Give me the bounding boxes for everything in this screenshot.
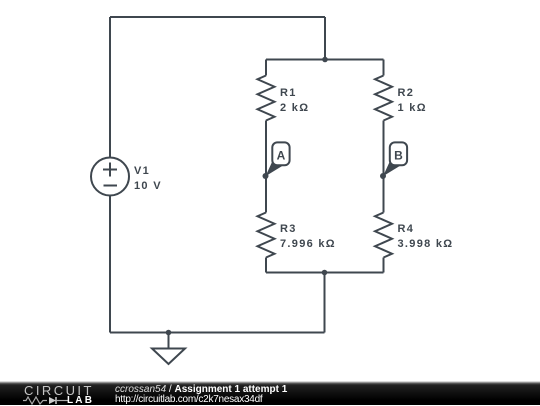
svg-text:10 V: 10 V (134, 180, 162, 192)
wire left rail upper (top rail to V1 plus terminal) (109, 17, 111, 158)
wire R4 bottom stub (383, 258, 385, 273)
svg-text:R2: R2 (398, 87, 415, 99)
junction node ground tap (166, 330, 172, 336)
svg-text:A: A (277, 149, 286, 163)
CircuitLab logo (24, 383, 94, 398)
resistor R3 (258, 213, 275, 258)
wire top node drop (top rail to junction) (324, 17, 326, 60)
resistor R2 (375, 76, 392, 121)
wire bottom rail (110, 332, 325, 334)
svg-text:R3: R3 (280, 223, 297, 235)
node B flag (380, 142, 407, 179)
svg-text:R1: R1 (280, 87, 297, 99)
junction node top (322, 57, 328, 63)
svg-text:R4: R4 (398, 223, 415, 235)
svg-text:3.998 kΩ: 3.998 kΩ (398, 238, 454, 250)
ground stub wire (168, 333, 170, 349)
node A flag (263, 142, 290, 179)
wire node B segment (R2 bottom to R4 top) (383, 121, 385, 213)
wire bottom connector (R3 branch to R4 branch) (266, 272, 384, 274)
wire node A segment (R1 bottom to R3 top) (265, 121, 267, 213)
footer url text (115, 395, 262, 405)
svg-text:B: B (394, 149, 403, 163)
svg-text:2 kΩ: 2 kΩ (280, 102, 309, 114)
ground symbol triangle (152, 349, 185, 365)
wire R2 top stub (383, 60, 385, 76)
resistor R1 (258, 76, 275, 121)
junction node bottom (322, 270, 328, 276)
wire R3 bottom stub (265, 258, 267, 273)
voltage source V1 circle (91, 158, 129, 196)
V1 minus sign (104, 185, 118, 187)
wire bottom node drop (junction to bottom rail) (324, 273, 326, 333)
wire top connector (R1 branch to R2 branch) (266, 59, 384, 61)
svg-text:V1: V1 (134, 165, 150, 177)
svg-text:7.996 kΩ: 7.996 kΩ (280, 238, 336, 250)
resistor R4 (375, 213, 392, 258)
footer title text (115, 385, 287, 395)
wire R1 top stub (265, 60, 267, 76)
wire top rail (110, 16, 325, 18)
svg-text:1 kΩ: 1 kΩ (398, 102, 427, 114)
V1 plus sign (103, 163, 117, 177)
footer bar (0, 381, 540, 405)
wire left rail lower (V1 minus terminal to bottom rail) (109, 196, 111, 333)
